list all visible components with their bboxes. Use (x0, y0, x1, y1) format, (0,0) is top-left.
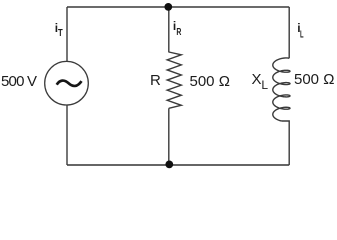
wire: middle vertical lower (168, 108, 170, 165)
svg-text:500 Ω: 500 Ω (294, 71, 334, 88)
wire: inductor bottom exit (281, 121, 289, 165)
wire: bottom horizontal (67, 164, 289, 166)
wire: left vertical lower (66, 105, 68, 165)
svg-text:T: T (58, 28, 63, 39)
svg-text:500 V: 500 V (1, 73, 37, 90)
junction dot top (164, 3, 172, 11)
wire: top horizontal (67, 6, 289, 8)
wire: left vertical upper (66, 7, 68, 62)
resistor R zigzag (167, 52, 181, 108)
svg-text:X: X (252, 71, 262, 88)
svg-text:L: L (300, 30, 304, 41)
svg-text:L: L (261, 78, 268, 92)
wire: middle vertical upper (168, 7, 170, 52)
inductor XL coil (273, 58, 290, 121)
wire: right vertical upper (288, 7, 290, 58)
svg-text:500 Ω: 500 Ω (190, 73, 230, 90)
source V1 sine symbol (57, 81, 82, 86)
source V1 circle (45, 61, 89, 105)
junction dot bottom (165, 161, 173, 169)
svg-text:R: R (176, 27, 181, 38)
svg-text:R: R (150, 72, 161, 89)
